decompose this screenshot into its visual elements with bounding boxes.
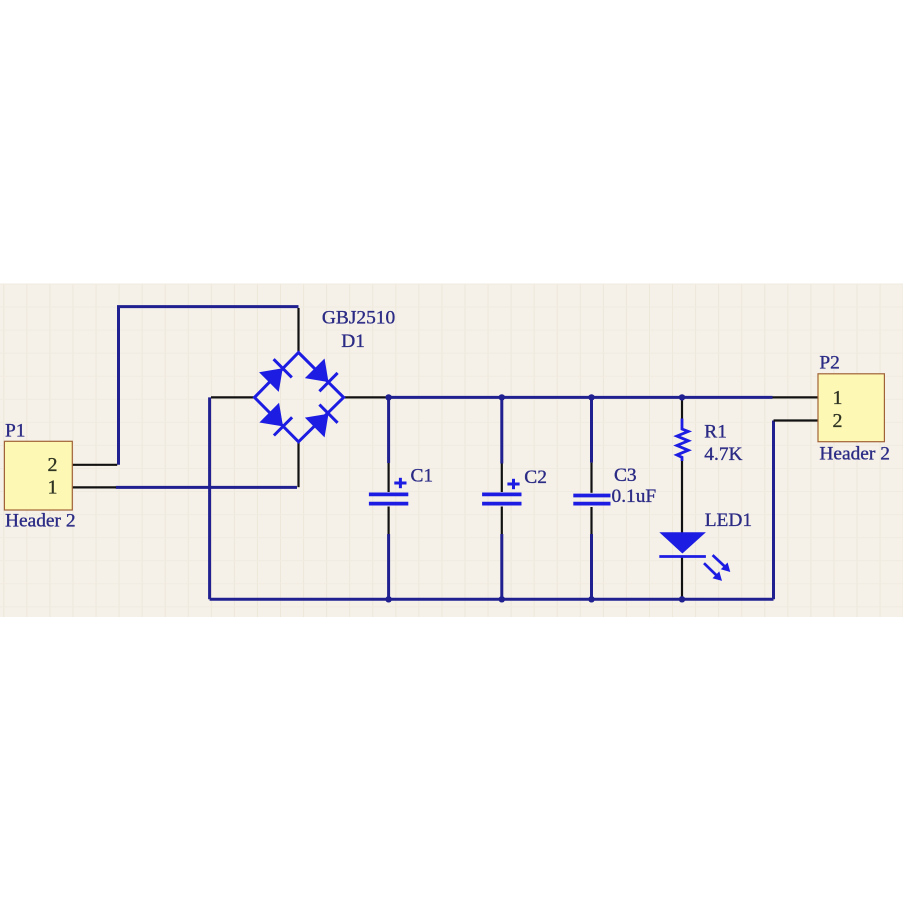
svg-text:P1: P1 xyxy=(5,421,25,442)
svg-text:P2: P2 xyxy=(819,352,839,373)
svg-text:D1: D1 xyxy=(341,331,365,352)
svg-text:LED1: LED1 xyxy=(705,510,752,531)
svg-text:R1: R1 xyxy=(704,421,727,442)
svg-text:GBJ2510: GBJ2510 xyxy=(322,308,395,329)
svg-text:2: 2 xyxy=(48,454,58,476)
svg-text:Header 2: Header 2 xyxy=(819,444,890,465)
svg-text:C2: C2 xyxy=(524,467,547,488)
svg-text:1: 1 xyxy=(833,387,843,409)
svg-text:C1: C1 xyxy=(411,466,434,487)
svg-text:Header 2: Header 2 xyxy=(5,510,76,531)
svg-text:1: 1 xyxy=(48,477,58,499)
svg-text:2: 2 xyxy=(833,410,843,432)
svg-text:C3: C3 xyxy=(614,465,637,486)
svg-text:4.7K: 4.7K xyxy=(704,444,742,465)
svg-text:0.1uF: 0.1uF xyxy=(612,486,657,507)
